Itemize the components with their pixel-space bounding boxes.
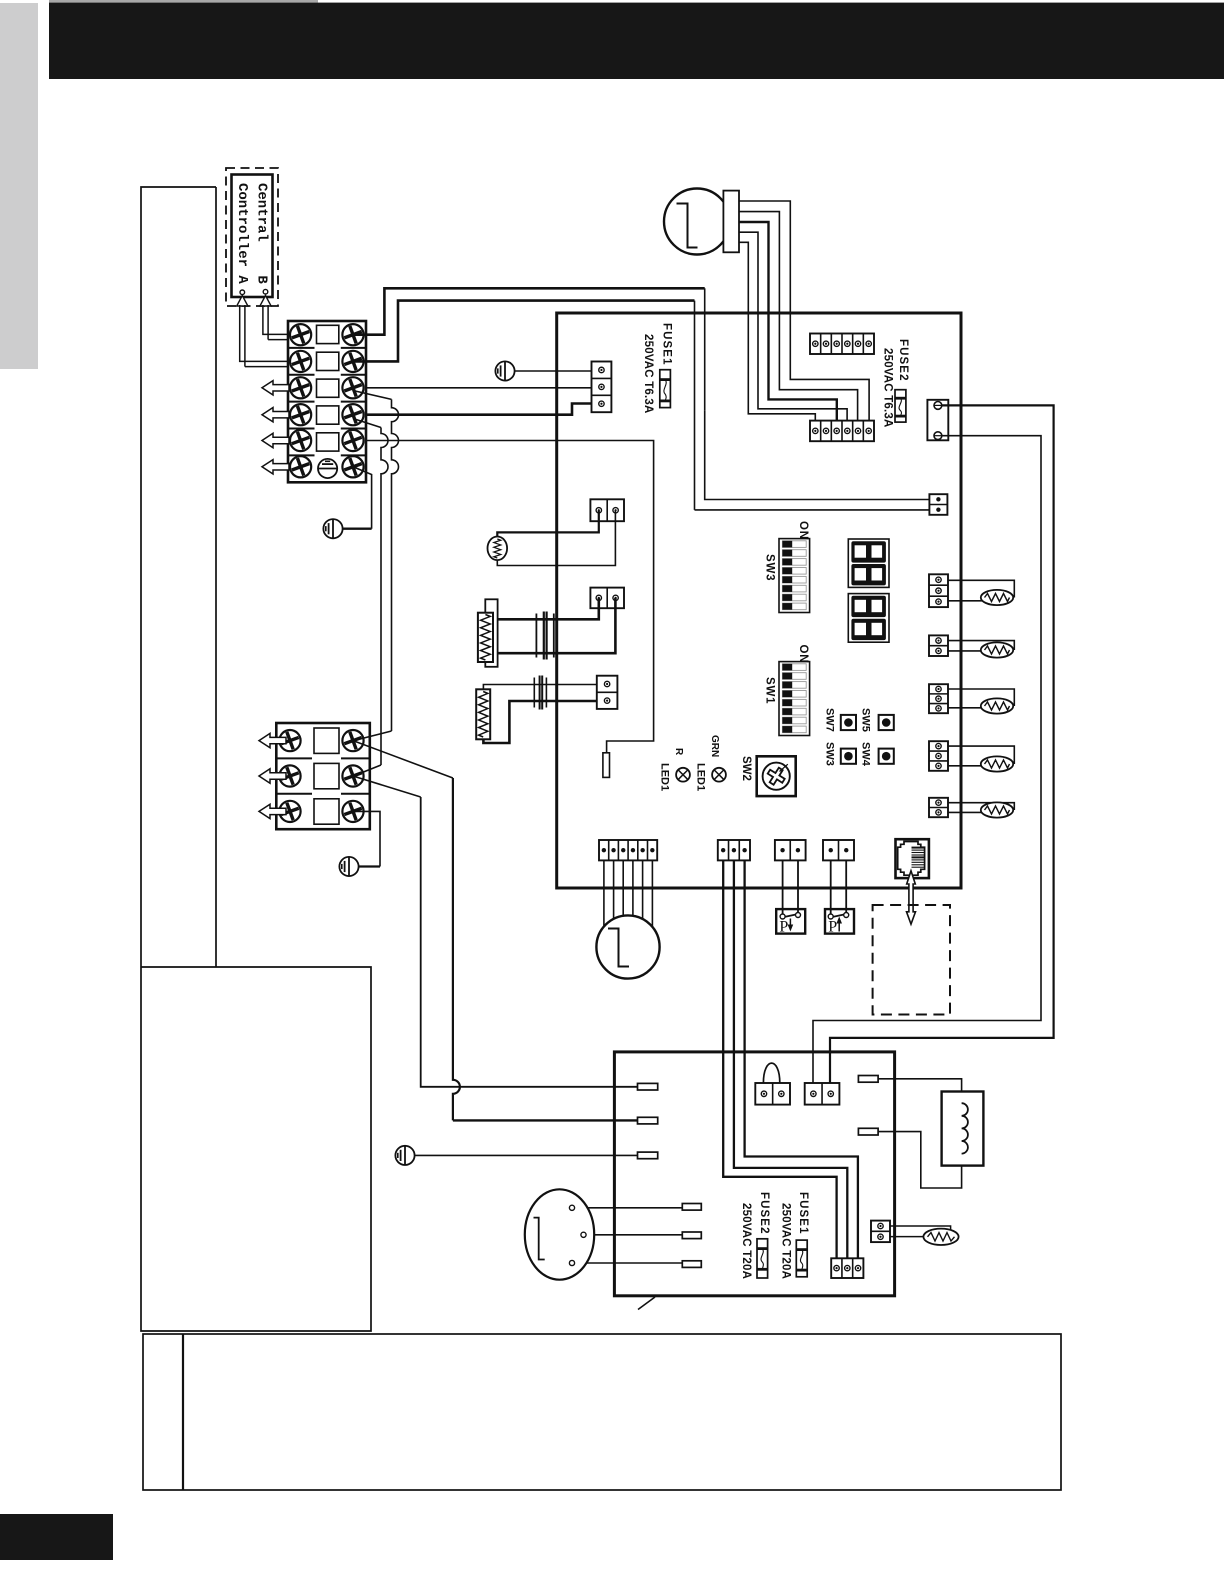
svg-text:SW1: SW1 <box>764 677 776 704</box>
svg-text:FUSE1: FUSE1 <box>797 1192 809 1235</box>
svg-text:250VAC T6.3A: 250VAC T6.3A <box>642 334 654 414</box>
svg-text:R: R <box>673 748 684 756</box>
svg-text:FUSE2: FUSE2 <box>897 339 909 382</box>
svg-text:LED1: LED1 <box>694 763 706 791</box>
svg-text:FUSE1: FUSE1 <box>661 323 673 366</box>
svg-text:250VAC T20A: 250VAC T20A <box>740 1203 752 1279</box>
svg-text:Central B: Central B <box>254 183 270 284</box>
svg-text:SW4: SW4 <box>859 742 871 767</box>
svg-text:250VAC T20A: 250VAC T20A <box>779 1203 791 1279</box>
svg-text:SW3: SW3 <box>764 554 776 581</box>
svg-text:SW5: SW5 <box>859 708 871 732</box>
svg-text:FUSE2: FUSE2 <box>758 1192 770 1235</box>
svg-text:SW3: SW3 <box>823 742 835 766</box>
svg-text:ON: ON <box>797 645 809 664</box>
svg-text:SW7: SW7 <box>823 708 835 732</box>
svg-text:250VAC T6.3A: 250VAC T6.3A <box>881 348 893 428</box>
svg-text:P: P <box>828 919 837 936</box>
svg-text:GRN: GRN <box>709 735 720 757</box>
svg-text:SW2: SW2 <box>740 756 752 781</box>
svg-text:ON: ON <box>797 521 809 540</box>
svg-text:P: P <box>779 919 788 936</box>
svg-text:Controller A: Controller A <box>234 183 250 284</box>
svg-text:LED1: LED1 <box>658 763 670 791</box>
